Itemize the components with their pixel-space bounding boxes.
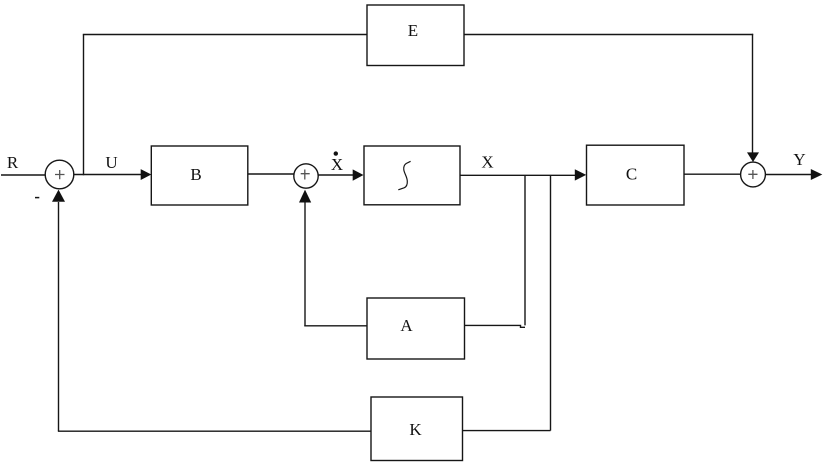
block K [371,397,463,461]
block E [367,5,464,66]
wire A output horizontal [304,325,367,327]
node U label [105,153,117,172]
svg-text:E: E [408,21,418,40]
svg-text:C: C [626,165,637,184]
svg-text:K: K [409,420,422,439]
summing junction S2 [294,164,318,188]
node R label [7,153,19,172]
block C [587,145,685,205]
node Y label [793,150,805,169]
wire K input horizontal [463,430,551,432]
wire S2 to integrator with arrowhead [318,169,363,180]
wire tap for A feedback (vertical down) [524,175,526,325]
node X label [481,153,493,172]
wire E output horizontal to right drop [464,34,753,36]
summing junction S3 [741,162,766,187]
node Xdot label [331,151,343,174]
wire right vertical drop into S3 with down arrowhead [747,34,759,162]
minus sign at S1 lower input [35,197,39,199]
wire R input [1,174,46,176]
wire B output to S2 [248,173,294,175]
wire Y output with arrowhead [765,169,822,180]
wire K output horizontal [58,430,371,432]
wire E feedforward tap (vertical up from U line) [83,35,85,176]
svg-text:R: R [7,153,19,172]
block integrator [364,146,460,205]
wire A input horizontal with small jog [465,325,526,327]
svg-text:A: A [400,316,413,335]
wire C output to S3 [684,173,741,175]
svg-text:Y: Y [793,150,805,169]
block A [367,298,465,359]
summing junction S1 [45,160,74,189]
wire top-left horizontal to block E [83,34,367,36]
wire A output vertical up into S2 with arrowhead [299,190,311,327]
svg-text:X: X [481,153,493,172]
wire U : S1 to block B with arrowhead [74,169,151,180]
svg-text:U: U [105,153,117,172]
block B [151,146,248,205]
wire tap for K feedback (vertical down) [550,175,552,430]
wire X : integrator output to block C with arrowhead [460,169,586,180]
svg-text:B: B [190,165,201,184]
wire K output vertical up into S1 with arrowhead [52,190,65,432]
svg-text:X: X [331,155,343,174]
